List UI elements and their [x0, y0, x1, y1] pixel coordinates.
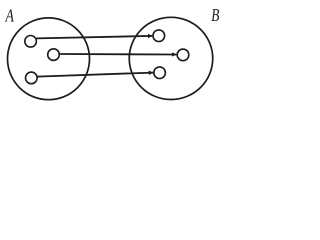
- set B ellipse: [129, 17, 213, 99]
- element a1 circle in A: [25, 36, 37, 48]
- svg-text:B: B: [211, 5, 219, 25]
- element a3 circle in A: [26, 72, 38, 84]
- arrow a2 to b2: [60, 53, 176, 56]
- svg-text:A: A: [5, 5, 15, 25]
- arrow a3 to b3: [37, 73, 153, 77]
- element b1 circle in B: [153, 30, 165, 42]
- element a2 circle in A: [48, 49, 60, 61]
- element b2 circle in B: [177, 49, 189, 61]
- arrow a1 to b1: [37, 36, 153, 39]
- set A ellipse: [8, 18, 90, 100]
- element b3 circle in B: [154, 67, 166, 79]
